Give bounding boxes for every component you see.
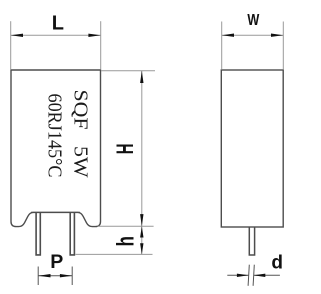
d extension line right [253,265,254,286]
svg-text:P: P [50,251,63,273]
L extension line left [10,21,12,69]
h arrow down [140,243,143,254]
P extension line left [37,267,39,286]
L arrow right [88,34,100,37]
P dimension line [38,275,72,277]
resistor body front view [11,70,101,227]
d dimension line right part [254,274,280,276]
W extension line right [282,22,284,70]
W extension line left [221,22,223,70]
resistor body side view [221,70,283,227]
W arrow left [222,34,234,37]
d dimension line left part [227,274,248,276]
W arrow right [271,34,283,37]
svg-text:60RJ145°C: 60RJ145°C [44,94,66,178]
P arrow left [38,274,50,277]
h arrow up [140,226,143,237]
h bottom extension line (lead ends) [76,253,153,255]
L extension line right [100,21,102,69]
d arrow right (pointing left) [254,274,266,277]
H/h dimension line [141,71,143,255]
P extension line right [71,267,73,286]
svg-text:SQF 5W: SQF 5W [70,90,92,178]
L arrow left [11,34,23,37]
svg-text:L: L [52,12,64,34]
body marking text line 1: SQF 5W, line 2: 60RJ145°C (rotated) [44,90,92,178]
lead 1 (left) [36,212,40,255]
L dimension line [11,34,101,36]
lead 2 (right) [70,212,74,255]
W dimension line [222,34,284,36]
d arrow left (pointing right) [237,274,249,277]
svg-text:W: W [247,12,259,30]
svg-text:d: d [271,253,283,274]
P arrow right [60,274,72,277]
bottom recess line [31,211,80,213]
H top extension line [101,70,155,72]
svg-text:h: h [113,236,140,246]
d extension line left [248,265,249,286]
svg-text:H: H [113,144,139,155]
H arrow up [140,71,143,83]
H arrow down [140,214,143,226]
H bottom extension line (body bottom) [98,225,154,227]
lead (side view) [249,227,254,255]
